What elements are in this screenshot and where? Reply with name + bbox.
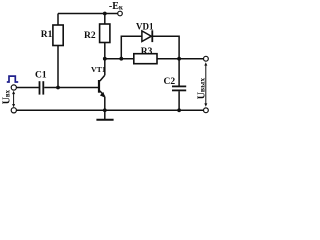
- capacitor C2: [178, 59, 180, 86]
- transistor VT1: [98, 80, 100, 93]
- node base-R1 junction: [56, 86, 60, 90]
- terminal input bottom: [11, 108, 16, 113]
- svg-text:R1: R1: [41, 30, 53, 40]
- svg-text:VT1: VT1: [91, 65, 106, 74]
- resistor R3: [134, 54, 157, 64]
- terminal input top: [11, 85, 16, 90]
- node C2-rail junction: [177, 108, 181, 112]
- svg-text:C1: C1: [35, 71, 47, 81]
- svg-text:R2: R2: [84, 31, 96, 41]
- wire base: [44, 87, 98, 89]
- svg-text:Uвых: Uвых: [197, 78, 208, 100]
- node VD1 left junction: [119, 57, 123, 61]
- capacitor C1: [39, 81, 41, 94]
- resistor R2: [100, 24, 110, 43]
- terminal output bottom: [204, 108, 209, 113]
- ground: [104, 110, 106, 119]
- wire R1 top lead: [57, 14, 59, 26]
- node emitter-rail junction: [103, 108, 107, 112]
- node rail-R2 junction: [103, 12, 107, 16]
- input arrow: [13, 93, 15, 106]
- terminal output top: [204, 56, 209, 61]
- svg-text:Uвх: Uвх: [2, 89, 13, 104]
- svg-text:R3: R3: [141, 47, 153, 57]
- wire R2 top lead: [104, 14, 106, 25]
- wire output node: [105, 58, 204, 60]
- wire top supply rail: [58, 13, 118, 15]
- svg-text:-Eк: -Eк: [109, 1, 124, 12]
- svg-text:VD1: VD1: [136, 22, 154, 32]
- svg-text:C2: C2: [164, 77, 176, 87]
- resistor R1: [53, 25, 63, 46]
- pulse symbol: [7, 76, 18, 82]
- diode VD1: [142, 31, 151, 42]
- wire R2 bottom lead / collector: [104, 43, 106, 76]
- node collector-output junction: [103, 57, 107, 61]
- wire bottom rail: [16, 109, 203, 111]
- output arrow: [205, 65, 207, 105]
- terminal -Ek: [118, 11, 123, 16]
- wire input: [17, 87, 39, 89]
- node VD1 right junction: [177, 57, 181, 61]
- wire VD1 branch: [121, 36, 179, 59]
- wire R1 bottom lead: [57, 46, 59, 88]
